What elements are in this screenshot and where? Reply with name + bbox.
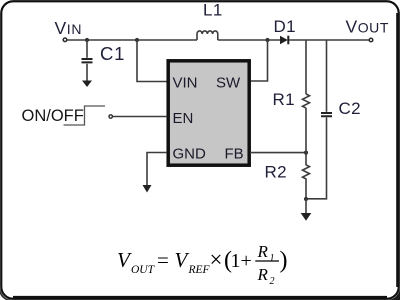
- ground (below C1): [82, 81, 92, 88]
- svg-text:VOUT: VOUT: [346, 17, 390, 37]
- svg-text:D1: D1: [274, 17, 297, 36]
- frame bottom edge (thicker): [13, 296, 387, 299]
- wire: C2 top lead: [326, 40, 328, 112]
- svg-text:FB: FB: [225, 146, 244, 163]
- wire: C1 bottom lead: [86, 64, 88, 81]
- terminal VIN circle: [63, 38, 67, 42]
- svg-text:R: R: [257, 242, 269, 261]
- capacitor C1: [82, 59, 93, 62]
- wire: EN: [113, 116, 167, 118]
- svg-text:ON/OFF: ON/OFF: [22, 107, 84, 125]
- ground (below GND pin): [143, 185, 152, 193]
- capacitor C2: [321, 113, 332, 116]
- resistor R1: [303, 94, 310, 108]
- svg-text:): ): [280, 248, 288, 274]
- rising-edge symbol: [64, 106, 106, 125]
- svg-text:REF: REF: [188, 264, 211, 276]
- wire: rail to IC VIN pin: [137, 40, 167, 82]
- node: FB junction: [304, 151, 308, 155]
- svg-text:=: =: [157, 248, 169, 272]
- svg-text:C1: C1: [100, 43, 125, 64]
- node: C1 junction: [85, 38, 89, 42]
- svg-text:V: V: [175, 248, 190, 272]
- svg-text:EN: EN: [173, 110, 194, 127]
- svg-text:VIN: VIN: [173, 75, 198, 92]
- svg-text:1: 1: [231, 250, 241, 272]
- wire: rail D1 to VOUT: [289, 39, 371, 41]
- wire: R1 bottom lead: [305, 108, 307, 153]
- svg-text:+: +: [241, 250, 252, 272]
- IC U1: [168, 61, 249, 165]
- svg-text:1: 1: [270, 253, 275, 264]
- inductor L1: [197, 31, 218, 40]
- wire: to ground: [305, 199, 307, 214]
- svg-text:L1: L1: [203, 1, 223, 20]
- svg-text:R1: R1: [273, 90, 296, 109]
- resistor R2: [303, 153, 310, 199]
- svg-text:OUT: OUT: [131, 264, 156, 276]
- wire: FB to divider: [250, 152, 306, 154]
- diode D1: [280, 36, 288, 45]
- svg-text:C2: C2: [339, 99, 362, 118]
- ground (bottom): [301, 213, 312, 221]
- wire: C1 top lead: [86, 40, 88, 58]
- svg-text:×: ×: [210, 247, 223, 272]
- wire: R1 top lead: [305, 40, 307, 94]
- svg-text:GND: GND: [173, 146, 207, 163]
- node: SW junction: [265, 38, 269, 42]
- formula V_OUT = V_REF x (1 + R1/R2): [117, 242, 288, 287]
- wire: C2 bottom lead: [306, 118, 327, 199]
- terminal VOUT circle: [369, 38, 373, 42]
- svg-text:V: V: [117, 248, 132, 272]
- terminal EN circle: [109, 115, 112, 118]
- svg-text:R: R: [257, 265, 269, 284]
- wire: rail L1 to D1: [218, 39, 280, 41]
- svg-text:VIN: VIN: [55, 18, 83, 38]
- svg-text:2: 2: [270, 276, 275, 287]
- svg-text:SW: SW: [216, 75, 241, 92]
- svg-text:R2: R2: [265, 163, 288, 182]
- node: bottom junction: [304, 197, 308, 201]
- bottom-left outer corner shade: [0, 287, 13, 300]
- wire: GND pin: [147, 153, 167, 186]
- wire: SW pin riser: [250, 40, 268, 81]
- node: VIN-pin junction: [135, 38, 139, 42]
- wire: top rail from VIN terminal to L1: [65, 39, 197, 41]
- frame right edge (thicker): [396, 13, 399, 287]
- bottom-right outer corner fill: [387, 287, 400, 300]
